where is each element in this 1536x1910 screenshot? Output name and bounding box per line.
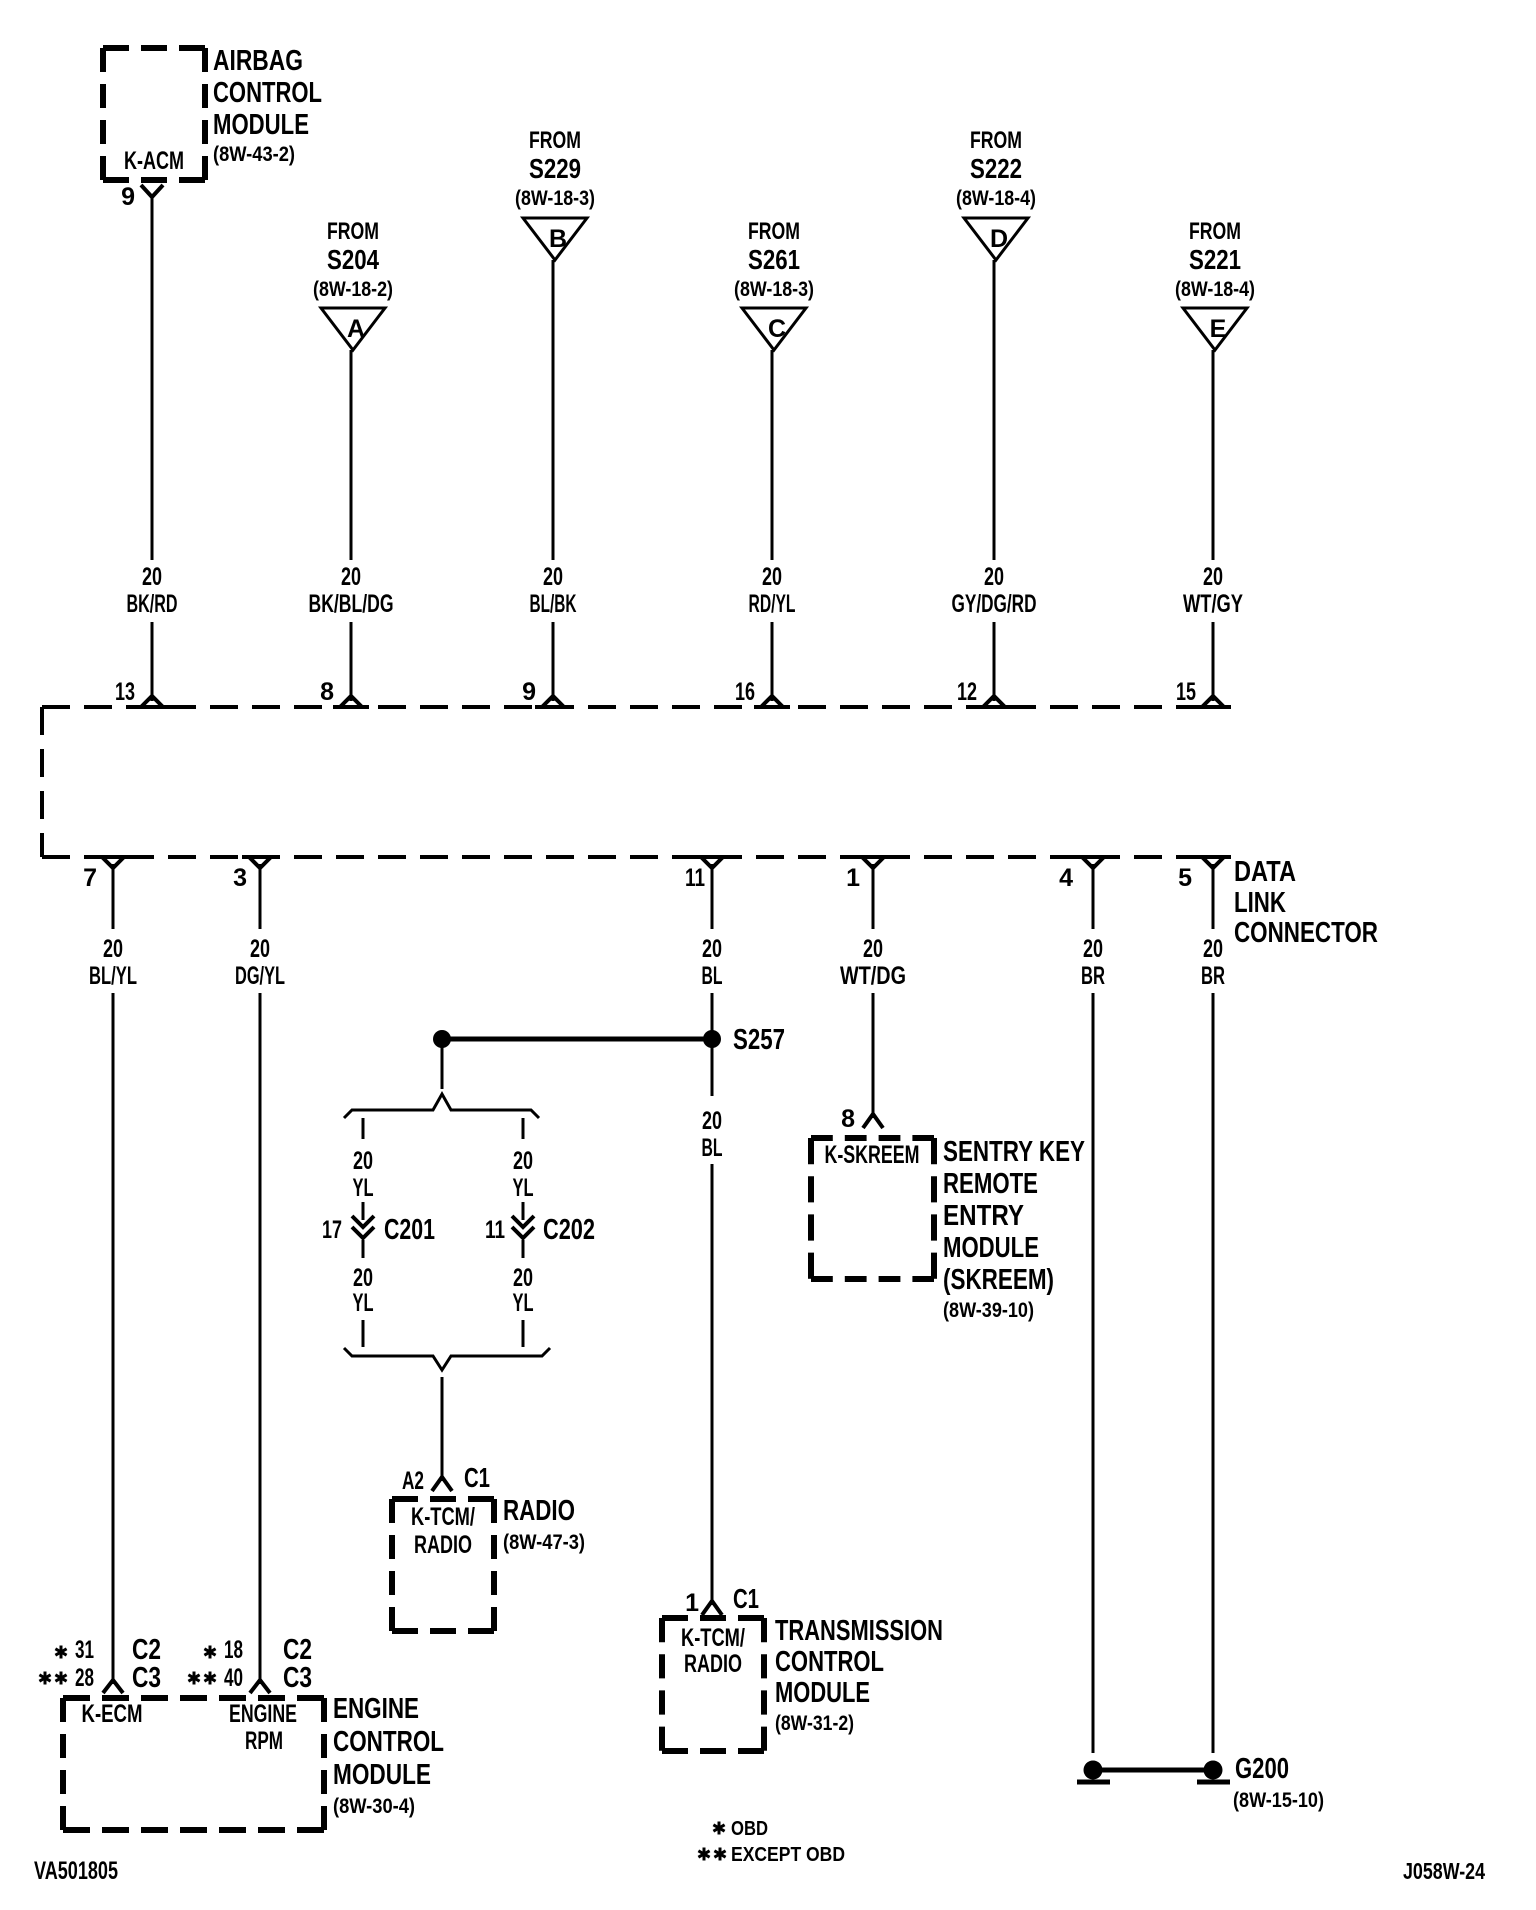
svg-text:28: 28 (75, 1664, 94, 1692)
label 20 BR (1081, 935, 1105, 990)
label ENGINE CONTROL MODULE (8W-30-4) (333, 1693, 444, 1818)
connector Y at bus pin 11 (bottom row) (694, 857, 730, 868)
svg-text:4: 4 (1059, 864, 1073, 892)
pin *31 C2 / **28 C3 at K-ECM (39, 1636, 94, 1692)
label 20 YL (left branch, above C201) (353, 1147, 374, 1202)
svg-text:ENGINE: ENGINE (229, 1700, 297, 1728)
svg-text:(8W-18-4): (8W-18-4) (956, 187, 1036, 210)
wire BK/RD lower segment to bus (151, 622, 154, 701)
pin 11 at C202 (485, 1216, 505, 1244)
svg-text:VA501805: VA501805 (34, 1857, 118, 1885)
connector triangle A (from S204) (321, 308, 385, 350)
svg-text:C3: C3 (283, 1662, 312, 1694)
wire BK/RD from K-ACM pin 9 down (upper segment) (151, 197, 154, 560)
wire between S257 junction dots (442, 1037, 712, 1042)
svg-text:(8W-18-3): (8W-18-3) (734, 278, 814, 301)
connector Y at K-ECM (BL/YL wire) (103, 1680, 123, 1693)
label 20 BK/RD (127, 563, 178, 618)
ground G200 terminal (right, pin 5 wire) (1197, 1761, 1230, 1783)
connector Y at K-ECM (DG/YL wire) (250, 1680, 270, 1693)
connector Y at bus pin 3 (bottom row) (242, 857, 278, 868)
svg-text:20: 20 (103, 935, 123, 963)
svg-text:20: 20 (353, 1264, 373, 1292)
svg-text:MODULE: MODULE (775, 1677, 870, 1709)
svg-text:GY/DG/RD: GY/DG/RD (952, 590, 1037, 618)
svg-text:J058W-24: J058W-24 (1403, 1858, 1485, 1884)
svg-text:S229: S229 (529, 153, 581, 184)
merge brace joining YL branches to radio C1 (344, 1348, 550, 1370)
svg-text:11: 11 (485, 1216, 505, 1244)
svg-text:BK/RD: BK/RD (127, 590, 178, 618)
connector Y at bus pin 15 (1195, 696, 1231, 707)
svg-text:DG/YL: DG/YL (235, 962, 285, 990)
pin 13 (Data Link Connector bus, top row) (115, 678, 135, 706)
connector Y at TCM pin 1 (C1) (702, 1601, 722, 1615)
connector Y at bus pin 9 (535, 696, 571, 707)
svg-text:(8W-18-4): (8W-18-4) (1175, 278, 1255, 301)
svg-text:BL: BL (702, 962, 723, 990)
label TRANSMISSION CONTROL MODULE (8W-31-2) (775, 1615, 943, 1735)
pin 9 of K-ACM (121, 183, 135, 211)
module box: Airbag Control Module (K-ACM) (103, 48, 205, 180)
svg-text:20: 20 (513, 1264, 533, 1292)
wire from triangle B down (upper segment) (552, 260, 555, 560)
pin 15 (Data Link Connector bus, top row) (1176, 678, 1196, 706)
dashed bus wire: left vertical segment (40, 707, 44, 857)
svg-text:K-TCM/: K-TCM/ (411, 1503, 475, 1531)
svg-text:C1: C1 (733, 1583, 759, 1614)
wire stub YL branch left (below split brace) (362, 1118, 365, 1139)
svg-text:16: 16 (735, 678, 755, 706)
label C202 (543, 1214, 595, 1246)
connector Y at bus pin 7 (bottom row) (95, 857, 131, 868)
text K-TCM/ RADIO inside radio box (411, 1503, 475, 1559)
wire BK/BL/DG lower segment to bus (350, 622, 353, 701)
pin A2 at radio C1 (402, 1467, 424, 1495)
connector Y at bus pin 12 (976, 696, 1012, 707)
label RADIO (8W-47-3) (503, 1495, 585, 1554)
label AIRBAG CONTROL MODULE (8W-43-2) (213, 45, 322, 166)
wire WT/DG segment below bus pin 1 (872, 864, 875, 929)
svg-text:(8W-31-2): (8W-31-2) (775, 1712, 854, 1735)
ground G200 terminal (left, pin 4 wire) (1077, 1761, 1110, 1783)
label DATA LINK CONNECTOR (1234, 856, 1378, 949)
connector Y at K-ACM pin 9 (141, 185, 163, 197)
pin 16 (Data Link Connector bus, top row) (735, 678, 755, 706)
splice S257 junction dot (left) (433, 1030, 451, 1048)
pin 5 (Data Link Connector bus, bottom row) (1178, 864, 1192, 892)
svg-text:DATA: DATA (1234, 856, 1296, 888)
svg-text:20: 20 (142, 563, 162, 591)
wire BR from pin 5 down to ground G200 (1212, 993, 1215, 1753)
svg-text:S222: S222 (970, 153, 1022, 184)
svg-text:C201: C201 (384, 1214, 435, 1246)
svg-text:FROM: FROM (1189, 218, 1241, 245)
connector triangle C (from S261) (742, 308, 806, 350)
splice S257 junction dot (right, on BL wire) (703, 1030, 721, 1048)
connector triangle E (from S221) (1183, 308, 1247, 350)
label 20 YL (right branch, above C202) (513, 1147, 534, 1202)
svg-text:D: D (990, 225, 1008, 253)
wire DG/YL from pin 3 down to K-ECM (259, 993, 262, 1684)
svg-text:20: 20 (353, 1147, 373, 1175)
svg-text:FROM: FROM (970, 127, 1022, 154)
svg-text:MODULE: MODULE (213, 109, 309, 141)
label 20 BL (below S257) (702, 1107, 723, 1162)
pin 8 (Data Link Connector bus, top row) (320, 678, 334, 706)
wire stem below right S257 dot (BL) (711, 1046, 714, 1096)
pin 7 (Data Link Connector bus, bottom row) (83, 864, 97, 892)
connector Y at radio pin A2 (C1) (432, 1477, 452, 1491)
svg-text:(8W-18-3): (8W-18-3) (515, 187, 595, 210)
wire stub YL branch right (below split brace) (522, 1118, 525, 1139)
svg-text:(8W-47-3): (8W-47-3) (503, 1531, 585, 1554)
svg-text:TRANSMISSION: TRANSMISSION (775, 1615, 943, 1647)
wire YL right into C202 (522, 1202, 525, 1220)
svg-text:9: 9 (121, 183, 135, 211)
wire stub above merge brace (left) (362, 1320, 365, 1347)
wire stub above merge brace (right) (522, 1320, 525, 1347)
svg-text:8: 8 (320, 678, 334, 706)
wire WT/GY lower segment to bus (1212, 622, 1215, 701)
label 20 RD/YL (749, 563, 796, 618)
svg-text:13: 13 (115, 678, 135, 706)
pin 1 (Data Link Connector bus, bottom row) (846, 864, 860, 892)
svg-text:8: 8 (841, 1105, 855, 1133)
label FROM S222 (8W-18-4) (956, 127, 1036, 210)
svg-text:31: 31 (75, 1636, 94, 1664)
svg-text:20: 20 (1083, 935, 1103, 963)
label S257 (733, 1024, 785, 1056)
connector Y at bus pin 4 (bottom row) (1075, 857, 1111, 868)
text VA501805 (sheet id) (34, 1857, 118, 1885)
wire DG/YL segment below bus pin 3 (259, 864, 262, 929)
svg-text:BR: BR (1081, 962, 1105, 990)
svg-text:(SKREEM): (SKREEM) (943, 1264, 1054, 1296)
svg-text:20: 20 (1203, 935, 1223, 963)
svg-text:MODULE: MODULE (943, 1232, 1039, 1264)
label 20 WT/DG (840, 935, 906, 990)
wire BR segment below bus pin 4 (1092, 864, 1095, 929)
svg-text:BL/YL: BL/YL (89, 962, 137, 990)
svg-text:S204: S204 (327, 244, 379, 275)
note * OBD (713, 1818, 768, 1840)
svg-text:WT/GY: WT/GY (1183, 590, 1243, 618)
label C1 (TCM) (733, 1583, 759, 1614)
svg-text:CONTROL: CONTROL (333, 1726, 444, 1758)
dashed bus wire: upper row of Data Link Connector (42, 705, 1228, 709)
svg-text:YL: YL (513, 1289, 534, 1317)
svg-text:RD/YL: RD/YL (749, 590, 796, 618)
svg-text:BL: BL (702, 1134, 723, 1162)
label C2 C3 (K-ECM left) (132, 1634, 161, 1694)
svg-text:ENTRY: ENTRY (943, 1200, 1024, 1232)
svg-text:3: 3 (233, 864, 247, 892)
svg-text:MODULE: MODULE (333, 1759, 431, 1791)
wire WT/DG from pin 1 down to K-SKREEM (872, 993, 875, 1118)
svg-text:YL: YL (353, 1174, 374, 1202)
wire YL below C201 (362, 1240, 365, 1258)
svg-text:11: 11 (685, 864, 705, 892)
connector Y at bus pin 16 (754, 696, 790, 707)
svg-text:20: 20 (702, 935, 722, 963)
wire between G200 ground terminals (1093, 1768, 1213, 1773)
svg-text:20: 20 (984, 563, 1004, 591)
pin 11 (Data Link Connector bus, bottom row) (685, 864, 705, 892)
svg-text:40: 40 (224, 1664, 243, 1692)
connector Y at SKREEM pin 8 (863, 1114, 883, 1128)
svg-text:LINK: LINK (1234, 887, 1286, 919)
svg-text:E: E (1210, 315, 1227, 343)
module box: transmission control module (K-TCM/RADIO) (662, 1618, 764, 1751)
wire from triangle C down (upper segment) (771, 350, 774, 560)
pin 4 (Data Link Connector bus, bottom row) (1059, 864, 1073, 892)
svg-text:REMOTE: REMOTE (943, 1168, 1038, 1200)
label 20 YL (left branch, below C201) (353, 1264, 374, 1317)
svg-text:20: 20 (341, 563, 361, 591)
pin 1 at TCM C1 (685, 1589, 699, 1617)
connector Y at bus pin 5 (bottom row) (1195, 857, 1231, 868)
svg-text:20: 20 (543, 563, 563, 591)
label 20 BL/BK (530, 563, 577, 618)
split brace from S257 to two YL branches (344, 1094, 539, 1118)
connector Y at bus pin 1 (bottom row) (855, 857, 891, 868)
svg-text:20: 20 (250, 935, 270, 963)
label SENTRY KEY REMOTE ENTRY MODULE (SKREEM) (8W-39-10) (943, 1136, 1085, 1322)
wire BL/YL segment below bus pin 7 (112, 864, 115, 929)
wire GY/DG/RD lower segment to bus (993, 622, 996, 701)
svg-text:(8W-15-10): (8W-15-10) (1233, 1789, 1324, 1812)
svg-text:S261: S261 (748, 244, 800, 275)
svg-text:K-ACM: K-ACM (124, 147, 184, 175)
wire from triangle D down (upper segment) (993, 260, 996, 560)
wire BL down to transmission control module (711, 1164, 714, 1605)
svg-text:CONNECTOR: CONNECTOR (1234, 917, 1378, 949)
label G200 (8W-15-10) (1233, 1753, 1324, 1812)
svg-text:A2: A2 (402, 1467, 424, 1495)
dashed bus wire: lower row of Data Link Connector (42, 855, 1224, 859)
svg-text:C3: C3 (132, 1662, 161, 1694)
pin 17 at C201 (322, 1216, 342, 1244)
text J058W-24 (sheet id) (1403, 1858, 1485, 1884)
label C1 (radio) (464, 1462, 490, 1493)
label 20 YL (right branch, below C202) (513, 1264, 534, 1317)
connector C201 double chevron (352, 1216, 374, 1238)
svg-text:AIRBAG: AIRBAG (213, 45, 303, 77)
svg-text:G200: G200 (1235, 1753, 1289, 1785)
svg-text:RPM: RPM (245, 1727, 283, 1755)
label FROM S261 (8W-18-3) (734, 218, 814, 301)
svg-text:17: 17 (322, 1216, 342, 1244)
svg-text:18: 18 (224, 1636, 243, 1664)
svg-text:EXCEPT OBD: EXCEPT OBD (731, 1844, 845, 1866)
text K-ECM inside box (82, 1700, 143, 1728)
svg-text:FROM: FROM (748, 218, 800, 245)
svg-text:ENGINE: ENGINE (333, 1693, 419, 1725)
label C2 C3 (engine rpm) (283, 1634, 312, 1694)
svg-text:S221: S221 (1189, 244, 1241, 275)
svg-text:K-TCM/: K-TCM/ (681, 1624, 745, 1652)
pin 12 (Data Link Connector bus, top row) (957, 678, 977, 706)
svg-text:RADIO: RADIO (684, 1650, 742, 1678)
svg-text:YL: YL (353, 1289, 374, 1317)
label 20 BK/BL/DG (309, 563, 394, 618)
text K-ACM (124, 147, 184, 175)
svg-text:12: 12 (957, 678, 977, 706)
svg-text:1: 1 (846, 864, 860, 892)
wire BL segment below bus pin 11 (711, 864, 714, 929)
note ** EXCEPT OBD (698, 1844, 845, 1866)
wire from triangle A down (upper segment) (350, 350, 353, 560)
text K-SKREEM inside box (825, 1141, 920, 1169)
svg-text:20: 20 (513, 1147, 533, 1175)
module box: sentry key remote entry module (K-SKREEM) (811, 1138, 934, 1279)
label FROM S221 (8W-18-4) (1175, 218, 1255, 301)
svg-text:SENTRY KEY: SENTRY KEY (943, 1136, 1085, 1168)
svg-text:K-SKREEM: K-SKREEM (825, 1141, 920, 1169)
pin 9 (Data Link Connector bus, top row) (522, 678, 536, 706)
wire BL/YL from pin 7 down to K-ECM (112, 993, 115, 1684)
wire RD/YL lower segment to bus (771, 622, 774, 701)
svg-text:OBD: OBD (731, 1818, 768, 1840)
svg-text:C202: C202 (543, 1214, 595, 1246)
wire YL below C202 (522, 1240, 525, 1258)
svg-text:B: B (549, 225, 567, 253)
module box: radio (K-TCM/RADIO) (392, 1499, 494, 1631)
pin 8 at K-SKREEM (841, 1105, 855, 1133)
svg-text:FROM: FROM (327, 218, 379, 245)
wire from triangle E down (upper segment) (1212, 350, 1215, 560)
svg-text:BL/BK: BL/BK (530, 590, 577, 618)
svg-text:20: 20 (762, 563, 782, 591)
svg-text:20: 20 (863, 935, 883, 963)
svg-text:(8W-30-4): (8W-30-4) (333, 1795, 415, 1818)
svg-text:C1: C1 (464, 1462, 490, 1493)
svg-text:5: 5 (1178, 864, 1192, 892)
label 20 WT/GY (1183, 563, 1243, 618)
label 20 BR (1201, 935, 1225, 990)
svg-text:RADIO: RADIO (503, 1495, 575, 1527)
text K-TCM/ RADIO inside TCM box (681, 1624, 745, 1678)
module box: engine control module (K-ECM) (63, 1698, 324, 1830)
label 20 BL (702, 935, 723, 990)
text ENGINE RPM inside box (229, 1700, 297, 1755)
svg-text:(8W-43-2): (8W-43-2) (213, 143, 295, 166)
svg-text:20: 20 (702, 1107, 722, 1135)
pin 3 (Data Link Connector bus, bottom row) (233, 864, 247, 892)
label C201 (384, 1214, 435, 1246)
svg-text:S257: S257 (733, 1024, 785, 1056)
svg-text:(8W-39-10): (8W-39-10) (943, 1299, 1034, 1322)
svg-text:FROM: FROM (529, 127, 581, 154)
svg-text:(8W-18-2): (8W-18-2) (313, 278, 393, 301)
svg-text:K-ECM: K-ECM (82, 1700, 143, 1728)
svg-text:7: 7 (83, 864, 97, 892)
svg-text:CONTROL: CONTROL (213, 77, 322, 109)
connector Y at bus pin 13 (134, 696, 170, 707)
svg-text:15: 15 (1176, 678, 1196, 706)
connector triangle D (from S222) (964, 218, 1028, 260)
label 20 GY/DG/RD (952, 563, 1037, 618)
label 20 BL/YL (89, 935, 137, 990)
svg-text:RADIO: RADIO (414, 1531, 472, 1559)
pin *18 C2 / **40 C3 at engine rpm (188, 1636, 243, 1692)
wire stem below left S257 dot (441, 1046, 444, 1089)
label FROM S204 (8W-18-2) (313, 218, 393, 301)
svg-text:20: 20 (1203, 563, 1223, 591)
svg-text:1: 1 (685, 1589, 699, 1617)
svg-text:A: A (347, 315, 365, 343)
svg-text:C: C (768, 315, 786, 343)
connector Y at bus pin 8 (333, 696, 369, 707)
wire from merge brace down to radio connector C1 (441, 1377, 444, 1481)
wire YL left into C201 (362, 1202, 365, 1220)
label 20 DG/YL (235, 935, 285, 990)
svg-text:CONTROL: CONTROL (775, 1646, 884, 1678)
svg-text:BR: BR (1201, 962, 1225, 990)
wire BL/BK lower segment to bus (552, 622, 555, 701)
label FROM S229 (8W-18-3) (515, 127, 595, 210)
wire BL from pin 11 down to splice S257 (711, 993, 714, 1039)
connector triangle B (from S229) (523, 218, 587, 260)
connector C202 double chevron (512, 1216, 534, 1238)
svg-text:9: 9 (522, 678, 536, 706)
wire BR from pin 4 down to ground G200 (1092, 993, 1095, 1753)
wire BR segment below bus pin 5 (1212, 864, 1215, 929)
svg-text:YL: YL (513, 1174, 534, 1202)
svg-text:BK/BL/DG: BK/BL/DG (309, 590, 394, 618)
svg-text:WT/DG: WT/DG (840, 962, 906, 990)
